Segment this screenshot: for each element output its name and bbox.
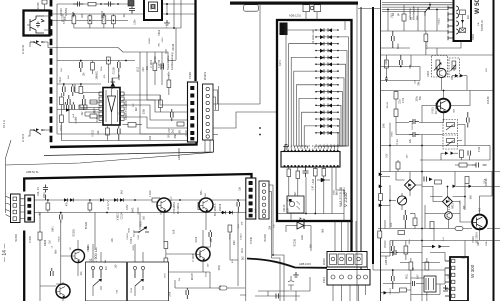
resistor R615 <box>198 203 202 210</box>
svg-text:BC238: BC238 <box>293 238 296 246</box>
svg-text:P14: P14 <box>330 144 332 147</box>
wire to W300 <box>381 241 429 257</box>
junction W1401 wires <box>259 127 261 135</box>
resistor R2102 <box>296 167 300 184</box>
svg-text:R2108: R2108 <box>113 67 116 75</box>
wire stub left column <box>381 177 391 249</box>
resistor R1431 <box>60 93 64 110</box>
wire row y294 <box>411 284 440 295</box>
svg-text:L612: L612 <box>162 37 164 43</box>
wire W640 to display area <box>269 185 273 258</box>
resistor R922 <box>394 109 398 123</box>
svg-text:ADB 1615: ADB 1615 <box>299 262 311 266</box>
svg-text:68n: 68n <box>477 241 480 246</box>
svg-text:F611: F611 <box>42 192 46 198</box>
svg-text:0,9V: 0,9V <box>125 204 129 210</box>
svg-text:4k7: 4k7 <box>478 207 481 212</box>
svg-text:16V: 16V <box>169 134 171 139</box>
capacitor C956 <box>472 163 487 168</box>
LED diode pair row 3 <box>315 42 339 46</box>
svg-text:39k: 39k <box>159 42 161 46</box>
wire top row h1 <box>57 4 133 21</box>
svg-text:V1612: V1612 <box>92 129 94 136</box>
svg-text:16V: 16V <box>344 187 346 191</box>
svg-text:P7: P7 <box>306 145 308 147</box>
svg-text:22u: 22u <box>80 271 83 276</box>
wire W1401 bottom stubs <box>205 140 210 152</box>
resistor R948 <box>378 231 382 238</box>
wire IC top connection <box>108 64 118 83</box>
diode V942 pair <box>453 185 472 188</box>
svg-text:P6: P6 <box>302 145 304 147</box>
junction top stub <box>310 6 314 10</box>
svg-text:1M0: 1M0 <box>96 117 99 122</box>
svg-text:220: 220 <box>142 67 145 72</box>
wire W50 bottom return <box>381 41 493 55</box>
diode V904 pair <box>452 74 467 77</box>
svg-text:1k5: 1k5 <box>74 116 77 121</box>
wire row y283 <box>383 283 424 285</box>
transistor V901 bold <box>437 99 451 113</box>
diode V613 pair on bus B <box>222 211 233 215</box>
svg-text:100n: 100n <box>134 19 137 25</box>
svg-text:H 1471: H 1471 <box>21 133 25 142</box>
svg-text:16V: 16V <box>208 263 210 267</box>
svg-text:C2104: C2104 <box>102 10 104 17</box>
svg-text:R2108: R2108 <box>219 203 222 211</box>
board border: display unit right edge extension <box>350 220 352 253</box>
connector W640 socket strip <box>259 181 269 219</box>
inductor L614 <box>148 190 160 202</box>
connector stub on top bus 1 <box>303 5 310 12</box>
resistor R1403 vertical <box>102 14 106 28</box>
diamond rectifier V906 <box>405 180 416 191</box>
svg-text:C903: C903 <box>471 34 475 41</box>
resistor R931 <box>460 150 464 158</box>
svg-text:Fernbedienung: Fernbedienung <box>170 52 174 70</box>
svg-text:5 W 55: 5 W 55 <box>157 59 161 68</box>
svg-text:33k: 33k <box>268 225 271 230</box>
svg-text:10k: 10k <box>478 21 480 25</box>
membrane switch box 2 <box>128 262 169 301</box>
resistor R1422 <box>91 61 95 75</box>
wire W1401 to display column <box>214 104 277 135</box>
svg-text:2n2: 2n2 <box>144 215 146 220</box>
svg-text:L612: L612 <box>312 178 315 184</box>
capacitor C1408 <box>129 7 135 14</box>
svg-text:5k6: 5k6 <box>469 195 472 200</box>
svg-text:4171: 4171 <box>278 60 282 66</box>
wire row y228 <box>378 228 500 230</box>
svg-text:100n: 100n <box>485 178 487 184</box>
page divider line thin <box>360 7 362 270</box>
wire bottom mid second <box>255 291 300 296</box>
diode V611 pair <box>64 198 74 202</box>
svg-text:47k: 47k <box>104 74 106 78</box>
wire module bottom row <box>74 0 181 28</box>
transistor V603 <box>199 198 213 212</box>
wire LED row 3 to IC pin 2 <box>288 44 316 149</box>
svg-text:0,1u: 0,1u <box>169 196 172 201</box>
svg-text:68n: 68n <box>200 190 203 195</box>
resistor R622 <box>164 254 168 272</box>
svg-text:100u: 100u <box>409 239 411 245</box>
wire bus row B <box>34 212 246 214</box>
wire diamond2 <box>433 186 460 211</box>
wire drops from bus B <box>40 212 238 301</box>
svg-text:P11: P11 <box>320 144 322 147</box>
resistor R945 <box>398 231 405 235</box>
wire connector drop right <box>214 86 219 111</box>
svg-text:P9: P9 <box>313 145 315 147</box>
wire row y171 <box>381 171 500 173</box>
svg-text:BC328: BC328 <box>85 221 88 229</box>
svg-text:BC328: BC328 <box>134 229 136 236</box>
wire right bus drop <box>230 219 246 301</box>
svg-text:1k0: 1k0 <box>68 75 70 79</box>
svg-text:15k: 15k <box>239 186 242 191</box>
svg-text:P12: P12 <box>323 144 325 147</box>
svg-text:15k: 15k <box>413 266 415 271</box>
resistor R1423 on wire <box>107 57 111 64</box>
capacitor C1411 <box>104 2 115 7</box>
LED diode pair row 4 <box>315 49 339 53</box>
capacitor C954 <box>413 281 415 286</box>
connector W600 socket strip left <box>11 194 21 223</box>
capacitor C923 <box>467 112 470 128</box>
svg-text:BC 301 B: BC 301 B <box>434 103 438 114</box>
wire row y262 <box>400 262 440 264</box>
svg-text:W 50: W 50 <box>474 0 481 14</box>
wire LED to connector <box>286 226 311 252</box>
wire bus row A <box>34 199 246 201</box>
svg-text:BC 238 A: BC 238 A <box>176 203 180 214</box>
wire row y252 <box>381 253 445 262</box>
transistor V908 small <box>445 212 453 220</box>
transistor V1402 in shield box <box>27 16 44 33</box>
capacitor C1441 <box>118 126 121 141</box>
svg-text:V1612: V1612 <box>438 17 440 24</box>
diode V1406 <box>111 78 116 89</box>
svg-text:R911: R911 <box>407 273 409 279</box>
diode V941 <box>429 178 433 182</box>
svg-text:C1413: C1413 <box>426 41 429 49</box>
LED diode pair row 6 <box>315 62 339 66</box>
wire row h2 <box>52 14 144 21</box>
svg-text:W1401: W1401 <box>203 71 207 80</box>
svg-text:V1612: V1612 <box>117 212 120 220</box>
svg-text:R605: R605 <box>141 220 143 226</box>
svg-text:L 614: L 614 <box>148 190 152 197</box>
svg-text:1n8: 1n8 <box>173 229 176 234</box>
svg-text:W 300: W 300 <box>470 264 475 278</box>
wire row y145 <box>381 125 490 146</box>
svg-text:1n5: 1n5 <box>254 208 258 213</box>
wires below P210 connector <box>333 285 366 301</box>
wire feed from top left <box>6 140 12 196</box>
capacitor C1446 <box>161 64 164 70</box>
resistor R1410 <box>88 2 96 6</box>
wire row h4 <box>57 83 101 85</box>
transistor V902 bold <box>472 215 487 231</box>
capacitor C1451 <box>63 84 66 96</box>
svg-text:2k2: 2k2 <box>119 189 123 194</box>
page divider line thick <box>372 7 374 264</box>
capacitor C621 <box>209 230 212 241</box>
svg-text:220: 220 <box>390 222 393 227</box>
svg-text:1k0: 1k0 <box>61 67 63 71</box>
svg-text:100n: 100n <box>119 115 122 121</box>
svg-text:330k: 330k <box>486 240 488 246</box>
connector P600 pin strip left <box>25 195 35 222</box>
wire LED row 8 to IC pin 13 <box>328 78 344 149</box>
board border: signal board left edge lower part <box>23 231 25 301</box>
top interconnect bus bar <box>230 2 358 5</box>
resistor R1448 <box>159 95 163 112</box>
svg-text:22u: 22u <box>123 13 126 18</box>
connector stub U10 <box>42 0 47 10</box>
svg-text:P 600: P 600 <box>28 235 32 242</box>
svg-text:P210: P210 <box>322 276 326 283</box>
diode V2105 <box>317 178 330 182</box>
LED diode pair row 15 <box>315 124 339 128</box>
svg-text:gn: gn <box>397 13 400 16</box>
IC V2100 pins <box>284 149 339 168</box>
svg-text:5k6: 5k6 <box>336 191 339 196</box>
LED diode pair row 14 <box>315 117 339 121</box>
svg-text:V614: V614 <box>131 287 133 293</box>
LED diode pair row 9 <box>315 83 339 87</box>
wire LED row 5 to IC pin 3 <box>291 57 316 148</box>
board border: keyboard unit dashed bus bar <box>50 0 53 144</box>
svg-text:0,1u: 0,1u <box>448 205 451 210</box>
wire row y66 <box>381 55 420 81</box>
wire LED row 12 to IC pin 11 <box>322 105 342 148</box>
resistor R623 <box>228 225 232 232</box>
svg-text:4k7: 4k7 <box>81 111 84 116</box>
diode V905 pair <box>441 152 458 155</box>
svg-text:560: 560 <box>407 154 409 158</box>
svg-text:C611: C611 <box>138 234 140 240</box>
resistor R1450 box <box>177 122 184 126</box>
wire drops to membrane boxes <box>93 244 143 262</box>
LED diode pair row 5 <box>315 56 339 60</box>
svg-text:LED: LED <box>300 235 304 240</box>
svg-text:33k: 33k <box>174 134 177 139</box>
svg-text:6k8: 6k8 <box>454 108 456 112</box>
svg-text:V612: V612 <box>220 284 222 290</box>
svg-text:S641: S641 <box>128 227 130 233</box>
capacitor C1410 <box>73 2 84 7</box>
resistor R631 <box>219 286 227 290</box>
diode V617 pair on bus A <box>100 198 104 202</box>
svg-text:V 901: V 901 <box>431 107 435 114</box>
capacitor C611 <box>60 213 63 224</box>
svg-text:V2 LED col4: V2 LED col4 <box>311 29 315 44</box>
capacitor C912 <box>385 76 388 82</box>
LED diode pair row 12 <box>315 104 339 108</box>
capacitor C210 <box>288 276 294 290</box>
wire row y240 <box>390 219 500 240</box>
transistor V604 <box>71 250 85 263</box>
board border: keyboard unit thin bottom enclosure <box>44 140 214 156</box>
svg-text:FM-ZF: FM-ZF <box>486 96 490 104</box>
svg-text:15k: 15k <box>145 65 149 70</box>
wire row y90 <box>381 90 493 92</box>
wire switch2 <box>28 130 50 136</box>
svg-text:R604: R604 <box>61 125 63 131</box>
board border: keyboard unit bottom edge <box>50 142 197 147</box>
resistor R949 <box>410 214 417 229</box>
label text block V1401 <box>149 52 174 70</box>
svg-text:W 600: W 600 <box>14 233 18 241</box>
connector W1401 socket strip <box>203 84 214 140</box>
svg-text:220: 220 <box>149 135 152 140</box>
svg-text:P13: P13 <box>327 144 329 147</box>
svg-text:R2108: R2108 <box>172 43 175 51</box>
junction y66 <box>400 66 402 68</box>
resistor R952 <box>409 258 413 278</box>
connector plug top mid <box>244 5 259 12</box>
svg-text:ADB 16: ADB 16 <box>384 256 388 265</box>
svg-text:R606: R606 <box>43 239 47 246</box>
wires right of box verticals <box>345 5 368 301</box>
resistor R621 <box>164 242 168 255</box>
svg-text:2n2: 2n2 <box>286 197 290 202</box>
transistor V605 <box>56 284 70 298</box>
resistor R1437 box <box>85 114 102 118</box>
diode V951 pair <box>428 245 450 249</box>
svg-text:C903: C903 <box>427 70 430 77</box>
svg-text:1n8: 1n8 <box>242 221 244 225</box>
svg-text:H901: H901 <box>97 70 99 76</box>
svg-text:C618: C618 <box>453 64 456 71</box>
capacitor C913 <box>400 55 403 67</box>
svg-text:6k8: 6k8 <box>205 192 207 196</box>
svg-text:TA 2 H: TA 2 H <box>2 120 6 128</box>
LED diode pair row 11 <box>315 97 339 101</box>
svg-text:0,1u: 0,1u <box>395 139 399 145</box>
svg-text:C614: C614 <box>205 271 207 277</box>
svg-text:S 641: S 641 <box>129 237 133 244</box>
IR receiver module V2110 <box>287 196 304 213</box>
wire LED row 6 to IC pin 14 <box>331 64 345 148</box>
IC V2100 <box>281 149 340 168</box>
wire switch to matrix <box>45 42 168 61</box>
right nested wire bundle of LED matrix <box>315 37 349 149</box>
wire transistor V606 circuit <box>166 230 210 272</box>
resistor R911 <box>424 31 428 48</box>
wire LED row 13 to IC pin 7 <box>302 112 316 148</box>
junction dots module <box>166 3 175 29</box>
resistor R953 <box>425 258 429 270</box>
connector W50 box <box>454 0 472 41</box>
svg-text:U10 B0: U10 B0 <box>36 2 40 11</box>
capacitor C942 <box>404 210 407 229</box>
wire keyboard bottom to right <box>147 61 176 101</box>
svg-text:1n8: 1n8 <box>111 238 114 243</box>
transistor V903 <box>437 68 446 77</box>
svg-text:R605: R605 <box>133 244 135 250</box>
wire row y109 under IC <box>57 109 99 111</box>
svg-text:L612: L612 <box>137 66 139 72</box>
wire LED row 10 to IC pin 12 <box>325 92 343 149</box>
junction dots row h4 <box>63 83 82 85</box>
svg-text:1M0: 1M0 <box>233 240 236 245</box>
svg-text:S642: S642 <box>132 207 135 213</box>
resistor R2101 <box>287 167 291 182</box>
svg-text:47k: 47k <box>65 202 68 207</box>
connector P210 strip horizontal <box>327 270 370 286</box>
resistor R942 <box>465 177 469 184</box>
thick interconnect cable ADB 1615 <box>247 259 327 268</box>
junction dots W50 area <box>387 4 438 10</box>
wire W1401 right bundle <box>214 90 218 110</box>
connector W50 pin forks <box>448 6 453 40</box>
svg-text:C1413: C1413 <box>240 233 242 240</box>
junction dots row h3 <box>80 60 127 62</box>
svg-text:C611: C611 <box>242 247 244 253</box>
wire V1402 pins to bus <box>44 16 52 30</box>
wire W600 to P600 links <box>20 199 25 219</box>
switch S901 <box>424 7 430 16</box>
resistor R1444 <box>79 105 87 109</box>
resistor R1402 vertical <box>88 14 92 28</box>
wire long feed line <box>6 152 214 165</box>
wire LED row 2 to IC pin 16 <box>338 37 349 149</box>
resistor R957 <box>396 160 400 172</box>
wire bottom bus <box>40 232 245 288</box>
svg-text:BC 1005 A: BC 1005 A <box>213 203 217 216</box>
resistor R606 <box>38 232 42 240</box>
quartz module shield <box>144 0 162 20</box>
svg-text:P5: P5 <box>299 145 301 147</box>
svg-text:560: 560 <box>322 228 325 233</box>
diode stack left edge 2 <box>379 204 383 208</box>
resistor R946 <box>430 222 434 229</box>
svg-text:V 601/651: V 601/651 <box>172 202 176 214</box>
wire top bus to display box drop <box>260 5 317 104</box>
svg-text:1k0: 1k0 <box>467 14 470 19</box>
wires display box to W210 strip <box>335 213 348 251</box>
svg-text:0,47: 0,47 <box>417 274 420 279</box>
wire transistor V604 circuit <box>56 240 78 301</box>
capacitor C1439 <box>72 102 75 110</box>
wire row y160 <box>390 123 490 301</box>
wire bus bar to IF board <box>358 8 381 10</box>
capacitor C1421 <box>80 61 83 73</box>
connector W300 box <box>450 257 468 301</box>
resistor R1434 box <box>90 100 97 104</box>
junction dots middle <box>272 213 316 256</box>
wire LED row 7 to IC pin 4 <box>294 71 316 148</box>
svg-text:12k: 12k <box>408 138 412 143</box>
svg-text:15k: 15k <box>274 223 276 227</box>
wire LED row 9 to IC pin 5 <box>296 85 316 149</box>
board border: control bus thick vertical <box>194 0 196 81</box>
transformer box T951 <box>424 276 436 292</box>
wire IC to connector P1401 <box>123 95 188 134</box>
svg-text:2n2: 2n2 <box>385 60 388 65</box>
svg-text:12k: 12k <box>96 130 100 135</box>
wire LED row 16 to IC pin 9 <box>315 133 338 149</box>
wire diamond1 <box>396 172 422 197</box>
svg-text:P4: P4 <box>295 145 297 147</box>
capacitor C952 <box>392 270 395 289</box>
capacitor C955 <box>443 285 448 291</box>
svg-text:S641: S641 <box>52 226 55 232</box>
svg-text:2n2: 2n2 <box>171 128 174 133</box>
